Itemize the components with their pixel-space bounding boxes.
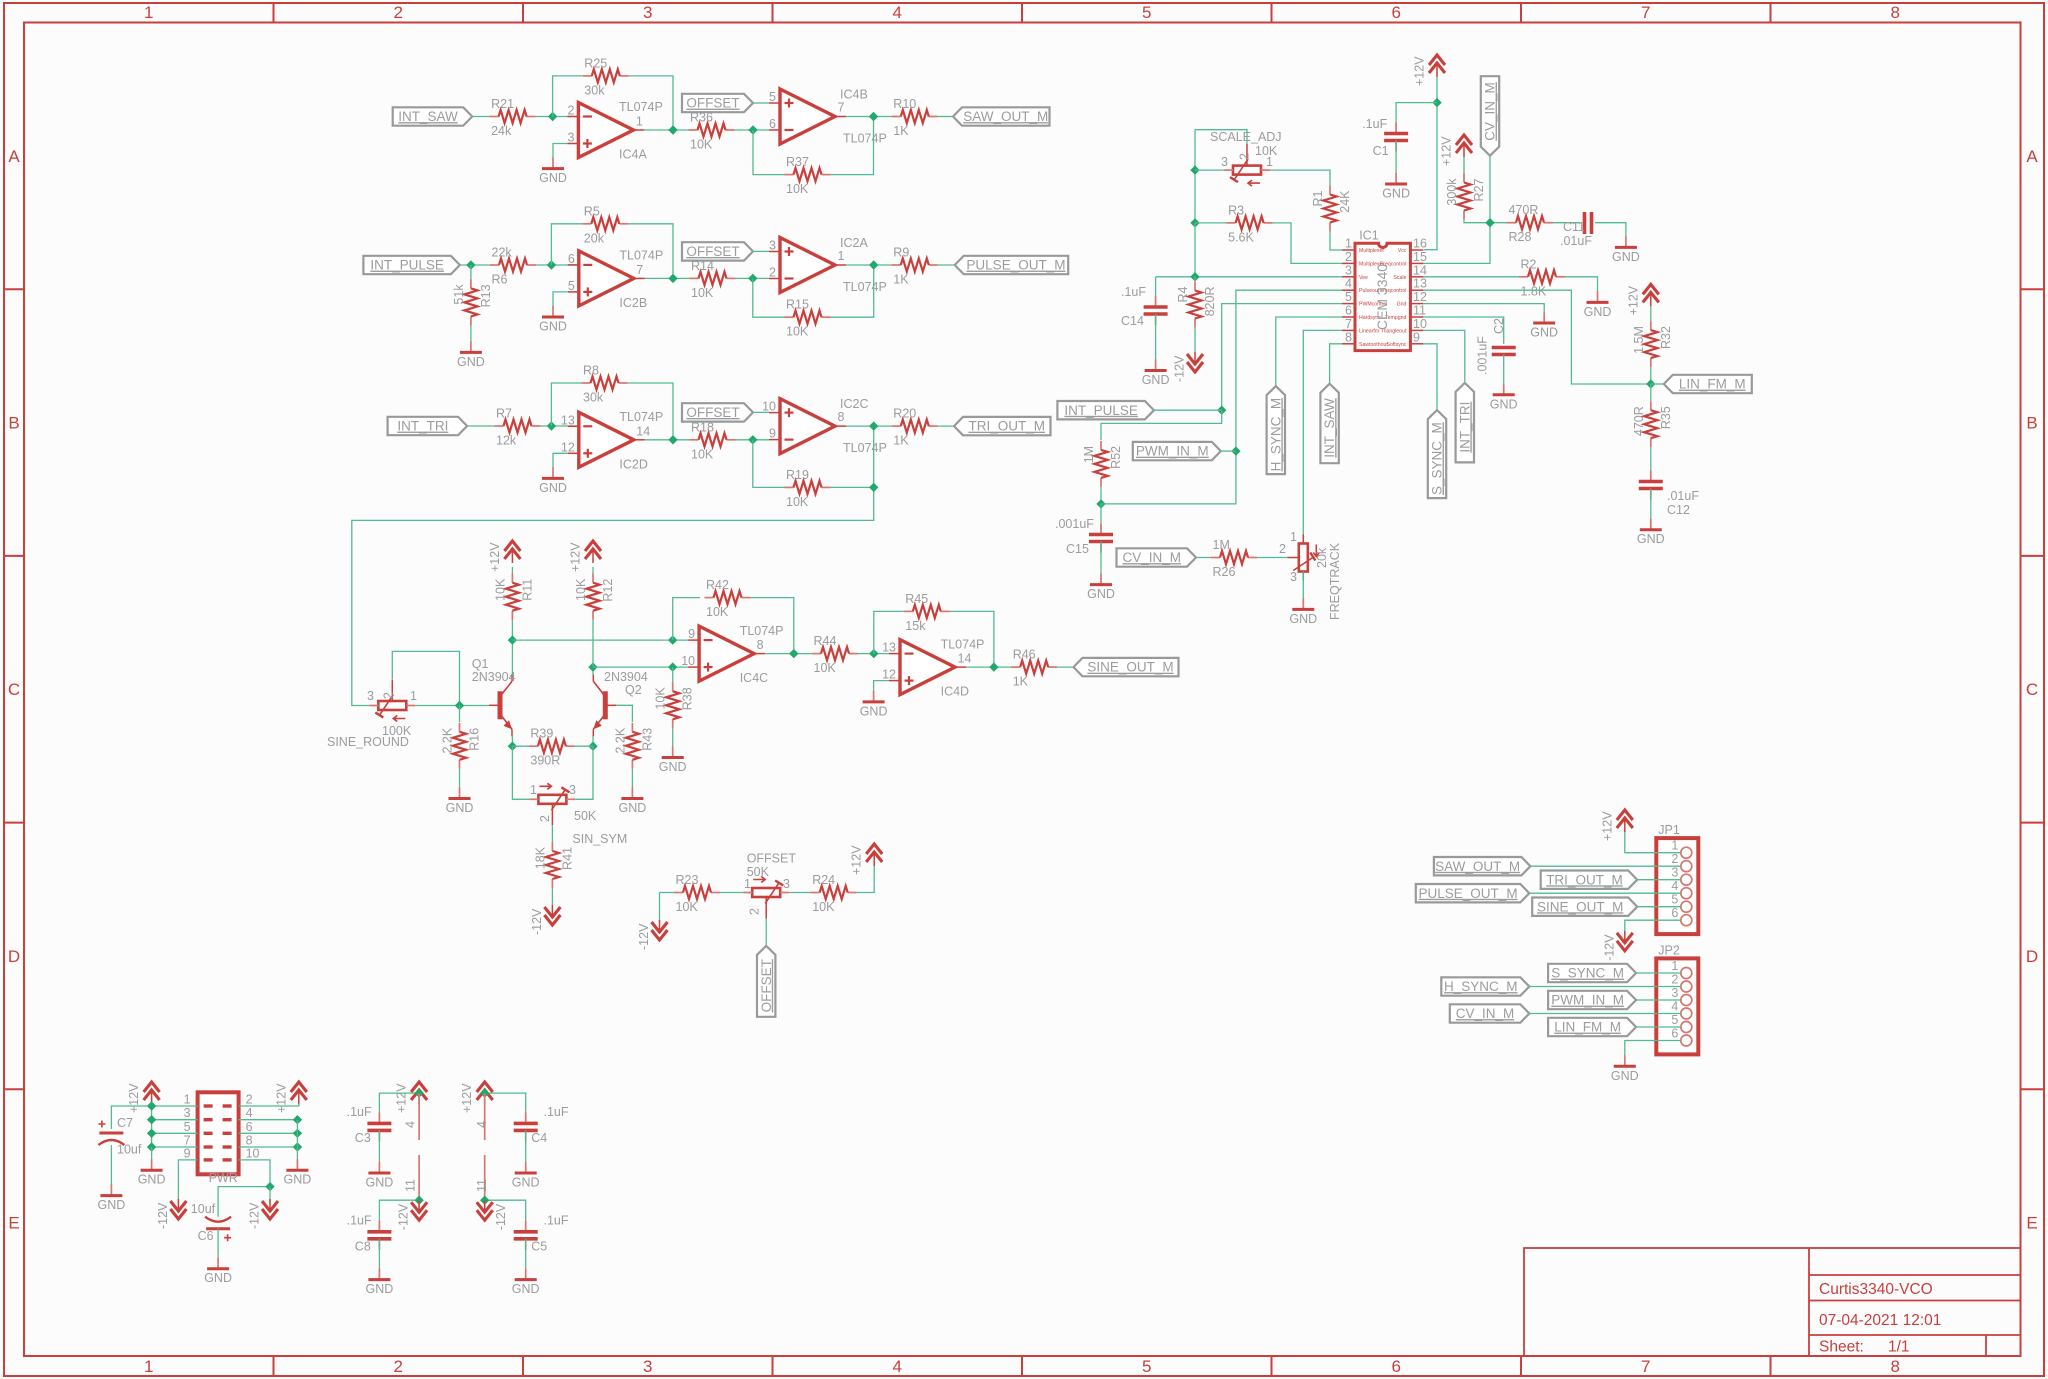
label SINE_ROUND pin3 [367, 689, 374, 703]
svg-text:14: 14 [1413, 263, 1427, 277]
svg-text:12: 12 [561, 440, 575, 454]
svg-text:+12V: +12V [274, 1083, 288, 1113]
wire R9 to PULSE_OUT_M [938, 264, 955, 266]
node junction R44/R45 [869, 649, 878, 658]
svg-text:-12V: -12V [1602, 934, 1616, 961]
wire to R13 [470, 265, 472, 281]
svg-text:.1uF: .1uF [544, 1214, 569, 1228]
wire right emitter to pot [576, 746, 594, 799]
svg-text:10K: 10K [690, 138, 713, 152]
wire scale net to pin3 line [1194, 223, 1196, 277]
resistor R37 [785, 155, 831, 196]
svg-text:R39: R39 [530, 727, 553, 741]
-12V supply for JP1 [1602, 931, 1633, 961]
svg-text:INT_TRI: INT_TRI [397, 419, 448, 434]
svg-text:2: 2 [1279, 542, 1286, 556]
wire pin2 right [239, 1104, 299, 1106]
svg-text:IC4C: IC4C [740, 671, 768, 685]
wire R38 to GND [672, 728, 674, 748]
svg-text:1: 1 [744, 877, 751, 891]
node junction R42 tap [668, 635, 677, 644]
resistor R21 [490, 97, 536, 138]
svg-text:3: 3 [769, 239, 776, 253]
resistor R41 [533, 842, 574, 888]
svg-text:R6: R6 [492, 273, 508, 287]
svg-text:16: 16 [1413, 237, 1427, 251]
svg-text:TL074P: TL074P [619, 410, 663, 424]
svg-text:R27: R27 [1472, 178, 1486, 201]
transistor Q1 [489, 674, 512, 736]
wire scale net vertical [1194, 130, 1196, 223]
node junction IC4D out [989, 662, 998, 671]
svg-text:PULSE_OUT_M: PULSE_OUT_M [966, 258, 1065, 273]
wire FREQTRACK to GND [1302, 572, 1304, 600]
svg-text:C2: C2 [1492, 318, 1506, 334]
svg-text:GND: GND [1584, 305, 1612, 319]
net flag PULSE_OUT_M jp [1416, 884, 1530, 902]
connector JP2 [1656, 943, 1698, 1054]
wire R35 to C12 [1650, 447, 1652, 478]
svg-text:5: 5 [1142, 3, 1151, 22]
wire pot pin3 to net [1195, 169, 1224, 171]
svg-text:Sheet:: Sheet: [1819, 1339, 1864, 1356]
wire INT_PULSE to R52 [1101, 410, 1222, 440]
+12V supply for R27 [1440, 135, 1473, 166]
svg-text:7: 7 [1641, 1357, 1650, 1376]
wire pin6 right [239, 1132, 298, 1134]
wire Q2 collector line to IC4C pin10 [593, 666, 688, 668]
wire R5 feedback left [551, 224, 582, 265]
label OFFSET pot name [747, 852, 797, 866]
wire pin3 line [1156, 276, 1342, 278]
svg-text:10K: 10K [812, 900, 835, 914]
wire R2 to GND [1565, 277, 1598, 293]
wire SINE_ROUND pin1 to base [415, 705, 489, 707]
node junction pwr p4 [293, 1115, 302, 1124]
svg-text:1: 1 [1671, 839, 1678, 853]
resistor R19 [785, 468, 831, 509]
net flag PWM_IN_M jp [1548, 991, 1636, 1009]
svg-text:Vcc: Vcc [1398, 248, 1407, 254]
wire IC4D pin12 to GND [874, 681, 889, 693]
svg-text:R19: R19 [786, 468, 809, 482]
svg-text:GND: GND [457, 355, 485, 369]
svg-text:11: 11 [404, 1179, 418, 1192]
svg-text:4: 4 [892, 1357, 901, 1376]
resistor R42 [705, 578, 751, 619]
svg-text:GND: GND [1611, 1069, 1639, 1083]
resistor R32 [1632, 321, 1673, 367]
wire +12V to JP1 pin1 [1625, 832, 1681, 853]
svg-text:LIN_FM_M: LIN_FM_M [1554, 1020, 1621, 1035]
svg-text:.1uF: .1uF [544, 1105, 569, 1119]
wire C7 to GND [110, 1145, 112, 1186]
+12V supply for PWR pin2 [274, 1082, 307, 1113]
svg-text:R32: R32 [1659, 326, 1673, 349]
potentiometer SCALE_ADJ [1224, 144, 1270, 186]
svg-text:12k: 12k [496, 434, 517, 448]
wire R12 to Q2 collector [592, 620, 594, 667]
resistor R35 [1632, 401, 1673, 447]
svg-text:10uf: 10uf [191, 1202, 216, 1216]
svg-text:3: 3 [783, 877, 790, 891]
svg-text:6: 6 [769, 117, 776, 131]
svg-text:13: 13 [882, 641, 896, 655]
svg-text:+12V: +12V [395, 1083, 409, 1113]
node junction R38 tap [668, 662, 677, 671]
wire pin14 to R2 [1423, 276, 1520, 278]
wire INT_SAW to R21 [472, 116, 489, 118]
svg-text:C: C [2026, 680, 2038, 699]
wire R52 to junction [1100, 487, 1102, 504]
wire emitters to R39 [512, 745, 529, 747]
svg-text:R7: R7 [496, 407, 512, 421]
svg-text:300k: 300k [1445, 178, 1459, 206]
net flag SINE_OUT_M jp [1532, 898, 1637, 916]
svg-text:50K: 50K [747, 865, 770, 879]
wire JP2 pin6 to GND [1625, 1041, 1681, 1057]
wire R24 to +12V [857, 864, 875, 893]
svg-text:1: 1 [1290, 530, 1297, 544]
svg-text:1: 1 [1266, 155, 1273, 169]
resistor R16 [441, 723, 482, 769]
svg-text:12: 12 [1413, 290, 1427, 304]
node junction Q2 emitter [588, 742, 597, 751]
svg-text:9: 9 [1413, 330, 1420, 344]
svg-text:2: 2 [748, 908, 762, 915]
label SINE_ROUND pin1 [410, 689, 417, 703]
+12V supply for R11 [488, 541, 521, 572]
net flag OFFSET row1 [682, 94, 753, 112]
svg-text:R4: R4 [1176, 286, 1190, 302]
node junction TRI/R19 [869, 483, 878, 492]
svg-text:13: 13 [561, 413, 575, 427]
label OFFSET pot pin3 [783, 877, 790, 891]
svg-text:H_SYNC_M: H_SYNC_M [1268, 398, 1283, 472]
svg-text:14: 14 [958, 652, 972, 666]
+12V supply for PWR pin1 [127, 1082, 160, 1113]
wire INT_PULSE junction [1154, 409, 1222, 411]
op-amp IC2C [762, 397, 887, 455]
svg-text:5: 5 [1142, 1357, 1151, 1376]
svg-text:C12: C12 [1667, 503, 1690, 517]
ground GND at R2 [1584, 291, 1612, 319]
svg-text:PULSE_OUT_M: PULSE_OUT_M [1419, 886, 1518, 901]
label FREQTRACK name [1328, 542, 1342, 620]
svg-text:4: 4 [246, 1106, 253, 1120]
-12V supply PWR pin10 [248, 1199, 279, 1229]
net flag INT_PULSE cem [1057, 401, 1154, 419]
svg-text:C6: C6 [198, 1229, 214, 1243]
wire JP1 pin6 to -12V [1625, 920, 1681, 935]
wire R23 to OFFSET pot [720, 892, 743, 894]
wire collector line to IC4C pin9 [512, 639, 688, 641]
wire OFFSET to IC2A pin3 [753, 250, 769, 252]
node junction R4 tap [1190, 272, 1199, 281]
node junction R18/R19 [748, 435, 757, 444]
node junction PWM tap [1231, 446, 1240, 455]
svg-text:TRI_OUT_M: TRI_OUT_M [968, 419, 1045, 434]
wire -12V for C8 [418, 1200, 420, 1203]
net flag SINE_OUT_M [1074, 658, 1179, 676]
resistor R46 [1011, 648, 1057, 689]
svg-text:IC4D: IC4D [941, 685, 969, 699]
svg-text:GND: GND [1637, 532, 1665, 546]
svg-text:+12V: +12V [460, 1083, 474, 1113]
svg-text:R38: R38 [681, 687, 695, 710]
wire C1 branch [1396, 103, 1437, 130]
ground GND at C5 [512, 1269, 540, 1297]
svg-text:4: 4 [1345, 277, 1352, 291]
svg-text:C7: C7 [117, 1116, 133, 1130]
svg-text:R11: R11 [520, 579, 534, 601]
svg-text:R46: R46 [1013, 648, 1036, 662]
IC power pin 4 left [404, 1093, 420, 1140]
svg-text:2: 2 [393, 1357, 402, 1376]
transistor Q2 [593, 674, 616, 736]
svg-text:2.2K: 2.2K [441, 727, 455, 753]
svg-text:10K: 10K [706, 605, 729, 619]
svg-text:18K: 18K [533, 846, 547, 869]
label OFFSET pot pin1 [744, 877, 751, 891]
IC power pin 11 left [404, 1155, 420, 1200]
svg-text:INT_TRI: INT_TRI [1457, 402, 1472, 453]
wire pin7 left [152, 1146, 198, 1148]
svg-text:3: 3 [1671, 866, 1678, 880]
svg-text:2N3904: 2N3904 [472, 670, 516, 684]
wire IC2A out to R9 [846, 264, 894, 266]
svg-text:JP2: JP2 [1658, 943, 1680, 957]
node junction C3 top [414, 1088, 423, 1097]
node junction Q1 emitter [508, 742, 517, 751]
svg-text:R41: R41 [560, 847, 574, 870]
svg-text:R28: R28 [1509, 230, 1532, 244]
wire R4 to -12V [1194, 328, 1196, 353]
svg-text:24K: 24K [1338, 190, 1352, 213]
svg-text:2: 2 [1238, 153, 1252, 160]
wire INT_PULSE to R6 [460, 264, 490, 266]
svg-text:INT_PULSE: INT_PULSE [1064, 403, 1138, 418]
svg-text:PWR: PWR [209, 1171, 238, 1185]
wire pot pin1 to R1 [1270, 170, 1330, 186]
node junction pwr p3 [147, 1115, 156, 1124]
svg-text:9: 9 [184, 1146, 191, 1160]
svg-text:9: 9 [688, 627, 695, 641]
label FREQTRACK pin1 [1290, 530, 1297, 544]
wire C1 to GND [1395, 141, 1397, 175]
wire S_SYNC_M to JP2 pin1 [1636, 972, 1681, 974]
label SIN_SYM value [574, 809, 597, 823]
svg-text:R24: R24 [812, 873, 835, 887]
label FREQTRACK pin2 [1279, 542, 1286, 556]
label Q1 name [472, 657, 489, 671]
wire R27 to junction [1464, 220, 1508, 223]
svg-text:15k: 15k [905, 619, 926, 633]
svg-text:10: 10 [1413, 317, 1427, 331]
+12V supply for R12 [569, 541, 602, 572]
svg-text:4: 4 [1671, 1000, 1678, 1014]
wire pin8 to INT_SAW [1330, 344, 1342, 384]
ground GND at R43 [619, 788, 647, 816]
ground GND at R16 [446, 788, 474, 816]
wire pin7 to FREQTRACK [1303, 330, 1342, 543]
wire IC2C out to R20 [846, 425, 894, 427]
wire CV flag down [1423, 156, 1490, 264]
ground GND at C8 [366, 1269, 394, 1297]
node junction IC2C out [869, 421, 878, 430]
svg-text:CEM 3340: CEM 3340 [1374, 264, 1390, 330]
svg-text:1K: 1K [893, 434, 909, 448]
capacitor C5 [514, 1214, 569, 1254]
svg-text:TL074P: TL074P [619, 249, 663, 263]
svg-text:1: 1 [530, 783, 537, 797]
net flag TRI_OUT_M [954, 417, 1051, 435]
potentiometer SINE_ROUND [369, 680, 415, 722]
wire SAW_OUT_M to JP1 pin2 [1530, 865, 1680, 867]
svg-text:3: 3 [643, 3, 652, 22]
svg-text:2N3904: 2N3904 [604, 670, 648, 684]
wire PWM flag to net [1221, 450, 1236, 452]
svg-text:GND: GND [1142, 373, 1170, 387]
IC U1 CEM3340 [1342, 228, 1427, 350]
resistor R28 [1507, 203, 1553, 244]
-12V supply left of R23 [637, 920, 668, 950]
wire R37 feedback right [831, 117, 874, 175]
svg-text:4: 4 [475, 1121, 489, 1128]
svg-text:-12V: -12V [494, 1203, 508, 1230]
node junction C1 tap [1432, 98, 1441, 107]
wire R37 feedback left [753, 130, 785, 175]
wire -12V to R23 [660, 892, 675, 894]
wire R42 feedback left [673, 598, 700, 641]
label SCALE_ADJ pin1 [1266, 155, 1273, 169]
svg-text:GND: GND [1289, 612, 1317, 626]
label SCALE_ADJ value [1255, 144, 1278, 158]
svg-text:2: 2 [1671, 852, 1678, 866]
wire junction to LIN_FM_M flag [1651, 383, 1664, 385]
svg-text:OFFSET: OFFSET [759, 959, 774, 1012]
node junction pwr p6 [293, 1129, 302, 1138]
svg-text:8: 8 [246, 1134, 253, 1148]
wire pin3 left [152, 1119, 198, 1121]
svg-text:TL074P: TL074P [740, 624, 784, 638]
svg-text:1: 1 [1671, 959, 1678, 973]
svg-text:GND: GND [446, 801, 474, 815]
svg-text:.1uF: .1uF [347, 1105, 372, 1119]
svg-text:10K: 10K [786, 495, 809, 509]
node junction IC4B out [869, 112, 878, 121]
svg-text:-12V: -12V [530, 908, 544, 935]
svg-text:C11: C11 [1563, 220, 1585, 234]
svg-text:GND: GND [619, 801, 647, 815]
wire IC2B out to R14 [645, 277, 696, 279]
svg-text:10: 10 [246, 1146, 260, 1160]
svg-text:SAW_OUT_M: SAW_OUT_M [1435, 859, 1520, 874]
svg-text:+12V: +12V [1626, 285, 1640, 315]
svg-text:R35: R35 [1659, 406, 1673, 429]
node junction scale/R3 [1190, 218, 1199, 227]
svg-text:2: 2 [1345, 250, 1352, 264]
wire Q2 base to R43 [616, 705, 632, 722]
svg-text:GND: GND [860, 704, 888, 718]
resistor R10 [892, 97, 938, 138]
label Q2 name [625, 683, 642, 697]
svg-text:E: E [8, 1214, 19, 1233]
svg-text:6: 6 [1671, 1027, 1678, 1041]
wire R18 to IC2C pin9 [736, 439, 770, 441]
wire R45 feedback right [950, 611, 994, 667]
svg-text:1.8K: 1.8K [1521, 284, 1547, 298]
svg-text:TRI_OUT_M: TRI_OUT_M [1546, 872, 1623, 887]
svg-text:GND: GND [539, 481, 567, 495]
svg-text:GND: GND [512, 1282, 540, 1296]
wire Q2 collector up [592, 667, 594, 675]
wire IC4A out to R36 [644, 129, 694, 131]
svg-text:B: B [8, 414, 19, 433]
wire R8 feedback right [628, 383, 674, 440]
+12V supply for C3 [395, 1082, 428, 1113]
svg-text:5: 5 [1671, 893, 1678, 907]
ground GND at IC2D [539, 467, 567, 495]
wire PULSE_OUT_M to JP1 pin4 [1529, 892, 1681, 894]
svg-text:7: 7 [1641, 3, 1650, 22]
wire C14 drop [1155, 277, 1157, 300]
wire rail to GND [151, 1147, 153, 1161]
svg-text:5: 5 [1345, 290, 1352, 304]
svg-text:R45: R45 [905, 592, 928, 606]
svg-text:1: 1 [144, 1357, 153, 1376]
+12V supply for C4 [460, 1082, 493, 1113]
ground GND at IC4D [860, 691, 888, 719]
svg-text:LIN_FM_M: LIN_FM_M [1679, 377, 1746, 392]
wire right rail [296, 1120, 298, 1161]
svg-text:2: 2 [246, 1093, 253, 1107]
svg-text:.1uF: .1uF [347, 1214, 372, 1228]
label OFFSET pot value [747, 865, 770, 879]
svg-text:07-04-2021 12:01: 07-04-2021 12:01 [1819, 1312, 1941, 1329]
ground GND at C6 [204, 1258, 232, 1286]
resistor R7 [495, 407, 541, 448]
svg-text:TL074P: TL074P [843, 280, 887, 294]
svg-text:6: 6 [246, 1120, 253, 1134]
svg-text:GND: GND [1530, 326, 1558, 340]
svg-text:SIN_SYM: SIN_SYM [572, 832, 627, 846]
svg-text:10K: 10K [574, 578, 588, 601]
wire R38 down [672, 667, 674, 683]
resistor R36 [689, 111, 735, 152]
svg-text:1: 1 [144, 3, 153, 22]
svg-text:GND: GND [98, 1198, 126, 1212]
wire R43 to GND [631, 769, 633, 789]
svg-text:Scale: Scale [1393, 275, 1406, 281]
wire R5 feedback right [628, 224, 673, 279]
wire OFFSET pot to R24 [789, 892, 812, 894]
wire pin6 to H_SYNC_M [1276, 317, 1342, 386]
svg-text:R43: R43 [640, 728, 654, 751]
op-amp IC2D [561, 410, 663, 471]
svg-text:Vee: Vee [1359, 275, 1368, 281]
resistor R1 [1311, 186, 1352, 232]
net flag OFFSET row2 [682, 242, 753, 260]
svg-text:R10: R10 [893, 97, 916, 111]
svg-text:7: 7 [838, 101, 845, 115]
label SCALE_ADJ name [1210, 130, 1282, 144]
wire pin9 to S_SYNC_M [1423, 344, 1437, 410]
wire junction to R3 [1195, 222, 1228, 224]
wire junction to R16 [459, 706, 461, 723]
capacitor C14 [1121, 285, 1168, 328]
wire OFFSET to IC2C pin10 [753, 411, 769, 413]
